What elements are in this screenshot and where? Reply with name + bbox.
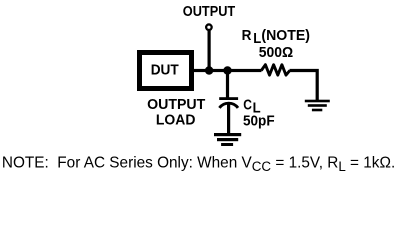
ground (below CL)	[214, 133, 241, 146]
svg-text:(NOTE): (NOTE)	[261, 28, 310, 44]
junction node B	[223, 66, 232, 75]
svg-text:R: R	[242, 28, 252, 44]
svg-text:500Ω: 500Ω	[259, 45, 293, 61]
DUT box	[140, 53, 192, 89]
svg-text:50pF: 50pF	[243, 113, 275, 129]
resistor RL	[261, 65, 290, 75]
wire: DUT output to resistor	[193, 69, 262, 72]
svg-text:OUTPUT: OUTPUT	[147, 97, 205, 113]
label OUTPUT LOAD	[147, 97, 205, 128]
wire: terminal down to node A	[208, 31, 211, 73]
label RL (NOTE)	[242, 28, 311, 47]
wire: capacitor to lower ground	[227, 105, 230, 134]
svg-text:C: C	[243, 97, 252, 113]
wire: resistor to right ground	[290, 71, 318, 101]
svg-text:DUT: DUT	[151, 62, 179, 78]
svg-text:OUTPUT: OUTPUT	[183, 4, 236, 20]
junction node A	[205, 66, 214, 75]
label CL	[243, 97, 261, 116]
svg-text:LOAD: LOAD	[156, 113, 196, 129]
ground (right)	[305, 100, 330, 112]
svg-text:NOTE: For AC Series Only: Whe: NOTE: For AC Series Only: When VCC = 1.5…	[2, 154, 395, 174]
capacitor CL	[219, 97, 238, 108]
wire: node B down to capacitor	[226, 71, 229, 98]
output terminal	[206, 24, 212, 30]
